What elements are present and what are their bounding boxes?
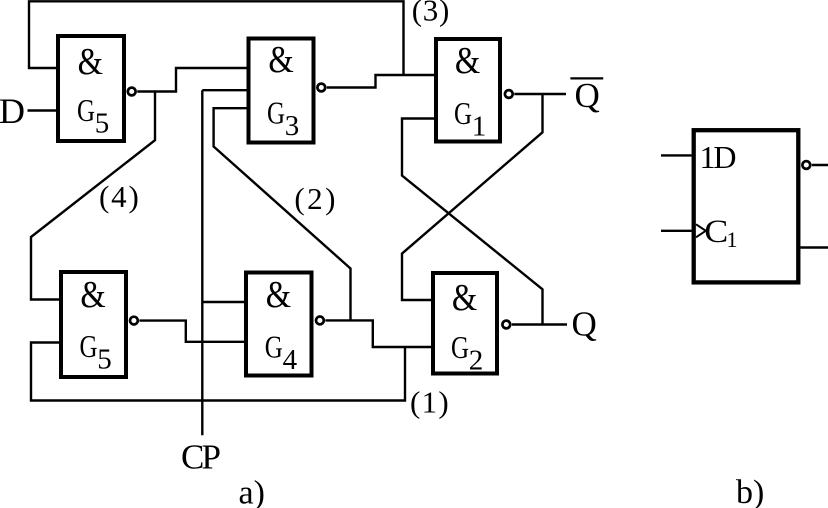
svg-text:b): b) bbox=[736, 474, 764, 508]
wire cross B: Q node up to G1 input 2 bbox=[402, 119, 543, 325]
wire G1 output to Q-bar label bbox=[514, 93, 566, 95]
svg-text:D: D bbox=[0, 91, 25, 131]
gate G3 box bbox=[249, 39, 314, 143]
svg-text:G: G bbox=[451, 329, 469, 365]
svg-text:5: 5 bbox=[95, 107, 110, 139]
svg-text:G: G bbox=[454, 95, 472, 131]
pin label C1 bbox=[704, 214, 737, 252]
svg-text:4: 4 bbox=[283, 344, 298, 376]
svg-text:3: 3 bbox=[285, 110, 300, 142]
gate G2 label bbox=[451, 276, 483, 377]
gate G2 box bbox=[433, 273, 497, 374]
bubble G5 bottom output bbox=[130, 317, 138, 325]
svg-text:G: G bbox=[265, 329, 283, 365]
svg-text:G: G bbox=[80, 328, 98, 364]
wire G2 output to Q label bbox=[512, 323, 567, 325]
flip-flop symbol box (part b) bbox=[694, 130, 799, 282]
wire D input to G5top bbox=[28, 109, 57, 111]
wire feedback (3): top line from G1-input net to G5top input 1 bbox=[29, 1, 404, 75]
bubble flip-flop inverted output bbox=[802, 161, 810, 169]
bubble G4 output bbox=[316, 317, 324, 325]
wire Q-bar output (part b) bbox=[812, 164, 828, 166]
gate G5 bottom box bbox=[61, 272, 126, 377]
svg-text:&: & bbox=[455, 39, 480, 82]
svg-text:1: 1 bbox=[472, 110, 487, 142]
svg-text:&: & bbox=[266, 273, 291, 316]
wire Q output (part b) bbox=[801, 246, 828, 248]
svg-text:5: 5 bbox=[97, 343, 112, 375]
gate G4 label bbox=[265, 273, 298, 376]
svg-text:C: C bbox=[704, 214, 728, 250]
wire cross A: Q-bar node down to G2 input 1 bbox=[402, 94, 543, 300]
gate G5 top label bbox=[77, 39, 109, 139]
dynamic clock indicator triangle bbox=[696, 224, 706, 237]
svg-text:1D: 1D bbox=[700, 139, 737, 175]
gate G1 label bbox=[454, 39, 486, 143]
svg-text:(2): (2) bbox=[294, 181, 335, 216]
wire (2): G4 output junction up to G3 input 3 bbox=[214, 108, 351, 320]
svg-text:Q: Q bbox=[572, 305, 597, 344]
svg-text:1: 1 bbox=[727, 227, 738, 252]
wire 1D input bbox=[661, 154, 692, 156]
gate G5 bottom label bbox=[80, 273, 112, 376]
bubble G2 output bbox=[502, 321, 510, 329]
wire G5top output to G3 input 1 bbox=[137, 68, 246, 92]
gate G3 label bbox=[267, 37, 299, 141]
bubble G5 top output bbox=[128, 88, 136, 96]
svg-text:&: & bbox=[80, 273, 105, 316]
wire G4 output to G2 input 2 bbox=[325, 320, 431, 347]
wire C1 input bbox=[661, 230, 692, 232]
svg-text:&: & bbox=[452, 276, 477, 319]
wire CP to G3 input 2 bbox=[202, 89, 246, 91]
svg-text:(1): (1) bbox=[410, 385, 449, 420]
bubble G3 output bbox=[317, 84, 325, 92]
svg-text:(4): (4) bbox=[99, 179, 139, 214]
node label Q-bar bbox=[570, 76, 603, 115]
wire (1): G2 input net junction to G5bottom input 2 bbox=[31, 343, 405, 401]
svg-text:G: G bbox=[267, 95, 285, 131]
bubble G1 output bbox=[505, 90, 513, 98]
wire G3 output to G1 input 1 bbox=[327, 75, 434, 88]
svg-text:a): a) bbox=[239, 475, 265, 508]
wire (4): G5top output junction to G5bottom input 1 bbox=[31, 92, 155, 300]
gate G5 top box bbox=[58, 36, 124, 141]
wire CP vertical bbox=[201, 90, 203, 435]
svg-text:CP: CP bbox=[181, 438, 221, 477]
gate G4 box bbox=[246, 273, 312, 376]
gate G1 box bbox=[436, 39, 500, 142]
svg-text:&: & bbox=[268, 37, 293, 80]
svg-text:(3): (3) bbox=[412, 0, 450, 28]
svg-text:2: 2 bbox=[469, 344, 484, 376]
svg-text:Q: Q bbox=[575, 76, 600, 115]
svg-text:&: & bbox=[78, 39, 103, 82]
svg-text:G: G bbox=[77, 92, 95, 128]
wire CP to G4 input 1 bbox=[202, 301, 244, 303]
wire G5bottom output to G4 input 2 bbox=[139, 321, 244, 342]
